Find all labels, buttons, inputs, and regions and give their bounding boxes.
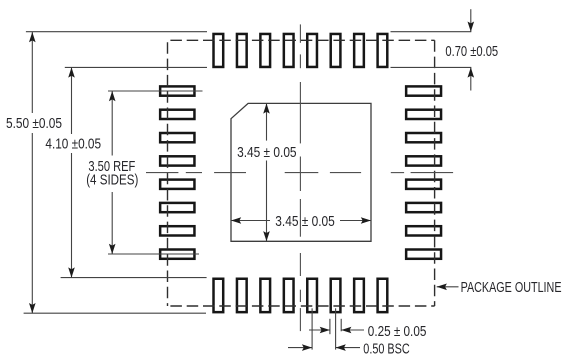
svg-text:0.50 BSC: 0.50 BSC	[363, 340, 409, 357]
svg-text:3.45 ± 0.05: 3.45 ± 0.05	[237, 144, 296, 161]
svg-text:5.50 ±0.05: 5.50 ±0.05	[6, 115, 62, 132]
svg-text:0.70 ±0.05: 0.70 ±0.05	[445, 42, 498, 59]
svg-text:PACKAGE OUTLINE: PACKAGE OUTLINE	[461, 278, 562, 295]
svg-text:(4 SIDES): (4 SIDES)	[86, 171, 138, 188]
svg-text:0.25 ± 0.05: 0.25 ± 0.05	[368, 323, 427, 340]
svg-text:3.45 ± 0.05: 3.45 ± 0.05	[275, 213, 334, 230]
svg-text:4.10 ±0.05: 4.10 ±0.05	[45, 135, 101, 152]
